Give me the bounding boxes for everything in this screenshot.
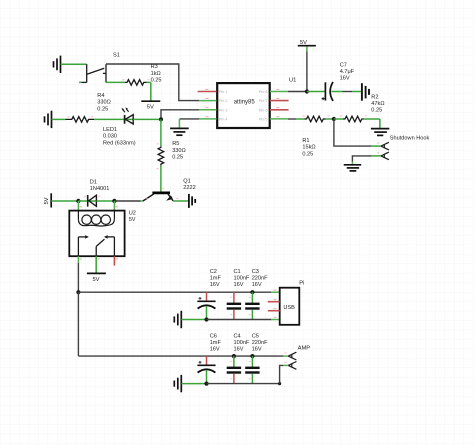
svg-text:1mF: 1mF — [210, 276, 222, 282]
svg-text:220nF: 220nF — [252, 276, 268, 282]
wire (red stub) — [113, 256, 115, 265]
svg-text:2222: 2222 — [183, 185, 195, 191]
svg-text:Pin 5: Pin 5 — [259, 117, 268, 121]
pin 6 wire — [270, 109, 289, 111]
svg-text:16V: 16V — [340, 76, 350, 82]
connector Pi USB — [280, 288, 300, 325]
svg-text:S1: S1 — [113, 53, 120, 59]
wire — [181, 383, 206, 385]
ground — [174, 311, 181, 328]
diode D1 — [88, 195, 97, 207]
wire — [178, 119, 180, 128]
svg-text:Q1: Q1 — [183, 179, 190, 185]
pin number ticks (faint) — [67, 80, 379, 379]
wire — [306, 52, 308, 92]
svg-text:0.25: 0.25 — [151, 77, 162, 83]
svg-text:5V: 5V — [147, 105, 154, 111]
resistor R1 — [296, 116, 334, 122]
wire — [283, 364, 288, 366]
wire — [280, 365, 284, 383]
resistor R2 — [334, 116, 380, 122]
wire — [271, 319, 279, 321]
node — [204, 317, 208, 321]
wire — [77, 292, 79, 356]
wire — [77, 263, 79, 292]
wire (red stub) — [268, 301, 280, 303]
connector AMP pin 2 — [288, 362, 296, 370]
svg-text:USB: USB — [283, 305, 295, 311]
resistor R5 — [158, 119, 164, 191]
svg-text:Shutdown Hook: Shutdown Hook — [390, 135, 430, 141]
ground — [45, 111, 52, 128]
svg-text:0.25: 0.25 — [302, 151, 313, 157]
svg-text:LED1: LED1 — [103, 127, 117, 133]
svg-text:1mF: 1mF — [210, 340, 222, 346]
ground — [54, 56, 61, 73]
svg-text:Pin 2: Pin 2 — [219, 99, 228, 103]
svg-text:D1: D1 — [90, 180, 97, 186]
svg-text:U1: U1 — [289, 78, 296, 84]
svg-text:0.25: 0.25 — [371, 108, 382, 114]
capacitor C5 — [245, 354, 259, 384]
svg-text:R2: R2 — [371, 95, 378, 101]
svg-text:C4: C4 — [234, 334, 241, 340]
svg-text:Pin 6: Pin 6 — [259, 108, 268, 112]
node — [305, 89, 309, 93]
svg-text:330Ω: 330Ω — [97, 100, 111, 106]
power 5V (left) — [44, 193, 51, 207]
power 5V — [298, 40, 316, 46]
wire — [113, 201, 115, 211]
svg-text:100nF: 100nF — [234, 340, 250, 346]
wire — [96, 200, 114, 202]
wire — [78, 200, 87, 202]
connector AMP pin 1 — [288, 352, 296, 360]
svg-text:15kΩ: 15kΩ — [302, 145, 315, 151]
wire — [288, 91, 307, 93]
svg-text:Pin 1: Pin 1 — [219, 90, 228, 94]
capacitor C3 — [245, 290, 259, 319]
svg-text:Pin 8: Pin 8 — [259, 90, 268, 94]
svg-text:16V: 16V — [234, 347, 244, 353]
wire — [271, 291, 279, 293]
USB pin ticks — [274, 290, 277, 317]
ground — [371, 129, 389, 136]
power 5V — [141, 101, 160, 111]
wire — [61, 63, 87, 65]
wire — [307, 91, 326, 93]
svg-text:16V: 16V — [210, 347, 220, 353]
wire — [77, 201, 79, 211]
wire — [106, 64, 199, 101]
svg-text:1N4001: 1N4001 — [90, 186, 110, 192]
switch S1 — [79, 64, 106, 82]
svg-text:0.25: 0.25 — [97, 106, 108, 112]
capacitor C6 — [197, 356, 215, 384]
svg-text:47kΩ: 47kΩ — [371, 101, 384, 107]
ground — [189, 194, 195, 208]
connector Shutdown Hook pin 2 — [381, 152, 389, 160]
wire — [306, 47, 308, 52]
power 5V (relay) — [87, 273, 106, 283]
wire — [371, 155, 381, 157]
wire — [351, 162, 353, 165]
svg-text:C2: C2 — [210, 269, 217, 275]
wire — [161, 110, 199, 120]
svg-text:C7: C7 — [340, 63, 347, 69]
op-amp U1 attiny85 — [217, 83, 270, 128]
svg-text:C1: C1 — [234, 269, 241, 275]
svg-text:C3: C3 — [252, 269, 259, 275]
wire — [77, 256, 79, 263]
svg-text:C6: C6 — [210, 334, 217, 340]
svg-text:5V: 5V — [92, 277, 99, 283]
ground — [362, 83, 369, 101]
resistor R4 — [52, 117, 125, 123]
svg-text:1kΩ: 1kΩ — [151, 71, 161, 77]
pin labels — [219, 90, 268, 121]
svg-text:Pin 4: Pin 4 — [219, 117, 228, 121]
svg-text:Pin 7: Pin 7 — [259, 99, 268, 103]
pin 1 wire — [198, 91, 217, 93]
svg-text:16V: 16V — [210, 282, 220, 288]
pin 5 wire — [270, 118, 288, 120]
svg-text:R3: R3 — [151, 64, 158, 70]
capacitor C7 — [322, 82, 333, 101]
wire — [379, 119, 381, 129]
node — [332, 117, 336, 121]
wire — [179, 118, 199, 120]
svg-text:C5: C5 — [252, 334, 259, 340]
svg-text:R4: R4 — [97, 93, 104, 99]
wire — [334, 119, 371, 146]
node A — [159, 117, 163, 121]
capacitor C2 — [197, 292, 215, 319]
pin 2 wire — [199, 100, 217, 102]
pin 3 wire — [199, 109, 217, 111]
svg-text:AMP: AMP — [298, 346, 311, 352]
wire rail2 — [78, 355, 283, 357]
capacitor C1 — [227, 292, 241, 319]
pin 8 wire — [270, 91, 288, 93]
ground — [174, 375, 181, 392]
relay pin ticks — [79, 207, 118, 259]
svg-text:0.25: 0.25 — [172, 154, 183, 160]
svg-text:5V: 5V — [129, 217, 136, 223]
transistor Q1 — [143, 193, 173, 201]
wire — [141, 200, 144, 202]
wire (S1 pin stub) — [79, 81, 82, 83]
wire rail1 — [78, 291, 271, 293]
svg-text:U2: U2 — [129, 211, 136, 217]
svg-text:Pi: Pi — [299, 281, 304, 287]
capacitor C4 — [227, 354, 241, 384]
svg-text:16V: 16V — [252, 282, 262, 288]
wire — [95, 256, 97, 273]
svg-text:220nF: 220nF — [252, 340, 268, 346]
pin 7 wire — [270, 100, 289, 102]
svg-text:16V: 16V — [252, 347, 262, 353]
svg-text:R1: R1 — [302, 138, 309, 144]
svg-text:16V: 16V — [234, 282, 244, 288]
svg-text:R5: R5 — [172, 141, 179, 147]
wire — [371, 145, 381, 147]
node — [76, 199, 80, 203]
svg-text:Pin 3: Pin 3 — [219, 108, 228, 112]
wire — [283, 355, 288, 357]
node — [76, 290, 80, 294]
wire (red stub) — [268, 310, 280, 312]
wire — [352, 91, 361, 93]
pin number ticks — [206, 89, 280, 116]
node — [204, 382, 208, 386]
pin 4 wire — [199, 118, 217, 120]
resistor R3 — [106, 80, 151, 86]
wire — [352, 156, 371, 162]
svg-text:5V: 5V — [44, 197, 50, 204]
wire — [332, 91, 343, 93]
wire — [207, 319, 272, 321]
relay U2 — [69, 211, 124, 257]
wire — [133, 118, 161, 120]
ground — [170, 128, 189, 135]
svg-text:4.7μF: 4.7μF — [340, 69, 355, 75]
svg-text:Red (633nm): Red (633nm) — [103, 140, 136, 146]
wire — [51, 200, 78, 202]
svg-text:100nF: 100nF — [234, 276, 250, 282]
svg-text:0.030: 0.030 — [103, 134, 117, 140]
wire — [150, 82, 152, 101]
LED LED1 — [122, 107, 134, 124]
wire — [207, 383, 280, 385]
ground — [344, 165, 362, 171]
wire — [114, 200, 140, 202]
wire — [173, 200, 188, 202]
svg-text:attiny85: attiny85 — [234, 100, 256, 106]
node — [112, 199, 116, 203]
connector Shutdown Hook pin 1 — [381, 142, 389, 150]
wire — [181, 319, 206, 321]
svg-text:5V: 5V — [300, 40, 307, 46]
wire — [343, 91, 353, 93]
node — [278, 382, 281, 385]
wire — [288, 118, 296, 120]
svg-text:330Ω: 330Ω — [172, 148, 186, 154]
